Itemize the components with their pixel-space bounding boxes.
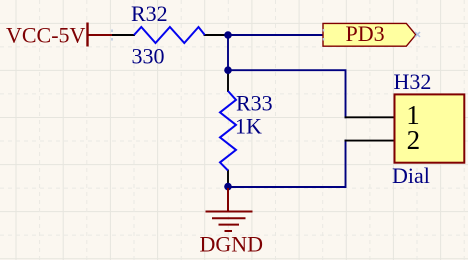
svg-text:2: 2 bbox=[407, 125, 421, 155]
svg-text:1K: 1K bbox=[235, 114, 262, 139]
svg-text:DGND: DGND bbox=[200, 231, 264, 256]
svg-text:R32: R32 bbox=[131, 1, 168, 26]
svg-text:R33: R33 bbox=[236, 91, 273, 116]
svg-text:330: 330 bbox=[132, 44, 165, 69]
svg-text:PD3: PD3 bbox=[346, 21, 385, 46]
svg-text:Dial: Dial bbox=[392, 163, 430, 188]
svg-text:H32: H32 bbox=[394, 69, 432, 94]
svg-text:VCC-5V: VCC-5V bbox=[6, 23, 86, 48]
